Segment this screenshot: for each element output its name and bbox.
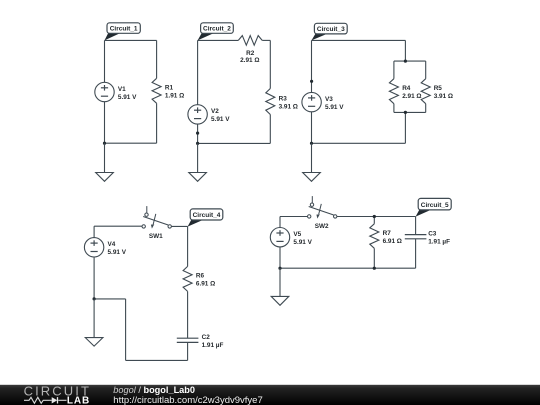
capacitor C2 — [177, 334, 224, 349]
wire C2 to bottom (Circuit_4) — [187, 342, 189, 360]
svg-text:Circuit_5: Circuit_5 — [421, 202, 449, 209]
junction dot bottom bar (Circuit_3) — [404, 111, 407, 114]
junction dot (Circuit_2) — [196, 142, 199, 145]
svg-text:C3: C3 — [428, 231, 437, 238]
wire bottom (Circuit_5) — [280, 267, 416, 269]
svg-text:2.91 Ω: 2.91 Ω — [240, 57, 259, 64]
resistor R6 — [183, 266, 215, 291]
svg-text:1.91 µF: 1.91 µF — [428, 239, 450, 246]
wire bottom (Circuit_4) — [126, 359, 188, 361]
wire stem lower (Circuit_3) — [404, 112, 406, 143]
ground (Circuit_5) — [271, 268, 289, 305]
capacitor C3 — [405, 231, 450, 246]
svg-text:5.91 V: 5.91 V — [118, 94, 137, 101]
svg-text:V1: V1 — [118, 86, 126, 93]
svg-text:V5: V5 — [293, 231, 301, 238]
wire V5 vertical (Circuit_5) — [279, 217, 281, 269]
junction dot bottom left (Circuit_3) — [310, 142, 313, 145]
switch SW1 — [142, 206, 171, 240]
svg-text:R4: R4 — [402, 85, 411, 92]
svg-text:6.91 Ω: 6.91 Ω — [383, 238, 402, 245]
svg-text:C2: C2 — [202, 334, 211, 341]
wire R5 top lead — [425, 61, 427, 79]
ground (Circuit_3) — [303, 143, 321, 181]
svg-text:bogol / bogol_Lab0: bogol / bogol_Lab0 — [113, 385, 195, 395]
wire bottom (Circuit_3) — [312, 142, 406, 144]
wire top right (Circuit_2) — [262, 39, 270, 41]
svg-text:R1: R1 — [165, 85, 174, 92]
wire right lower (Circuit_2) — [269, 115, 271, 144]
svg-text:5.91 V: 5.91 V — [293, 239, 312, 246]
junction dot R7 bottom — [373, 267, 376, 270]
svg-text:SW2: SW2 — [315, 223, 329, 230]
wire riser (Circuit_4) — [125, 299, 127, 361]
junction dot R7 top — [373, 215, 376, 218]
svg-text:5.91 V: 5.91 V — [325, 104, 344, 111]
voltage source V5 — [270, 228, 312, 247]
resistor R1 — [152, 78, 184, 103]
resistor R5 — [421, 79, 453, 104]
resistor R4 — [389, 79, 421, 104]
wire top left (Circuit_5) — [280, 216, 308, 218]
voltage source V1 — [95, 82, 137, 101]
wire R6 to C2 (Circuit_4) — [187, 291, 189, 338]
wire left (Circuit_2) — [197, 40, 199, 143]
wire stem upper (Circuit_3) — [404, 40, 406, 61]
wire switch to C3 node (Circuit_5) — [337, 216, 416, 218]
wire top left (Circuit_2) — [198, 39, 239, 41]
svg-text:Circuit_1: Circuit_1 — [110, 25, 138, 32]
wire R4 top lead — [393, 61, 395, 79]
svg-text:R2: R2 — [246, 50, 255, 57]
svg-text:6.91 Ω: 6.91 Ω — [196, 281, 215, 288]
svg-text:V3: V3 — [325, 96, 333, 103]
wire parallel bottom bar (Circuit_3) — [394, 111, 426, 113]
svg-text:V2: V2 — [211, 108, 219, 115]
wire V4 vertical (Circuit_4) — [93, 226, 95, 299]
node dot above V3 — [310, 80, 313, 83]
wire left (Circuit_3) — [311, 40, 313, 143]
svg-text:Circuit_4: Circuit_4 — [193, 212, 221, 219]
svg-text:R7: R7 — [383, 230, 392, 237]
url line — [113, 395, 262, 405]
wire node to R6 (Circuit_4) — [187, 226, 189, 266]
credit line — [113, 385, 195, 395]
svg-text:R6: R6 — [196, 273, 205, 280]
wire switch to node (Circuit_4) — [171, 225, 187, 227]
svg-text:V4: V4 — [108, 241, 116, 248]
node label Circuit_2 — [198, 23, 234, 41]
wire R5 bottom lead — [425, 104, 427, 113]
junction dot (Circuit_4) — [93, 297, 96, 300]
voltage source V3 — [302, 92, 344, 111]
resistor R3 — [266, 89, 298, 115]
resistor R2 — [238, 36, 262, 64]
wire top (Circuit_3) — [312, 39, 406, 41]
svg-text:R3: R3 — [279, 95, 288, 102]
wire R4 bottom lead — [393, 104, 395, 113]
wire C3 bottom lead — [415, 239, 417, 268]
ground (Circuit_2) — [189, 143, 207, 181]
svg-text:1.91 Ω: 1.91 Ω — [165, 93, 184, 100]
junction dot (Circuit_1) — [103, 142, 106, 145]
voltage source V4 — [84, 238, 126, 257]
footer bar — [0, 385, 540, 405]
node dot (Circuit_2) — [196, 132, 199, 135]
node label Circuit_1 — [105, 23, 141, 41]
ground (Circuit_4) — [85, 299, 103, 346]
wire bottom (Circuit_1) — [105, 142, 157, 144]
svg-text:http://circuitlab.com/c2w3ydv9: http://circuitlab.com/c2w3ydv9vfye7 — [113, 395, 262, 405]
svg-text:3.91 Ω: 3.91 Ω — [279, 103, 298, 110]
wire junction to riser (Circuit_4) — [94, 298, 126, 300]
wire left (Circuit_1) — [104, 40, 106, 143]
svg-text:3.91 Ω: 3.91 Ω — [434, 93, 453, 100]
svg-text:SW1: SW1 — [149, 233, 163, 240]
node label Circuit_4 — [188, 209, 223, 227]
wire top (Circuit_4) — [94, 225, 142, 227]
switch SW2 — [308, 196, 337, 230]
svg-text:Circuit_3: Circuit_3 — [317, 26, 345, 33]
junction dot top bar (Circuit_3) — [404, 60, 407, 63]
svg-text:5.91 V: 5.91 V — [211, 116, 230, 123]
CircuitLab logo — [24, 384, 91, 405]
svg-text:R5: R5 — [434, 85, 443, 92]
svg-text:5.91 V: 5.91 V — [108, 249, 127, 256]
wire bottom (Circuit_2) — [198, 142, 271, 144]
junction dot V5 bottom — [278, 267, 281, 270]
svg-text:Circuit_2: Circuit_2 — [203, 25, 231, 32]
wire right lower (Circuit_1) — [156, 103, 158, 143]
svg-text:LAB: LAB — [67, 395, 90, 405]
svg-text:2.91 Ω: 2.91 Ω — [402, 93, 421, 100]
voltage source V2 — [188, 105, 230, 124]
wire right upper (Circuit_1) — [156, 40, 158, 78]
wire R7 top lead — [373, 217, 375, 224]
wire R7 bottom lead — [373, 248, 375, 268]
wire right upper (Circuit_2) — [269, 40, 271, 88]
node label Circuit_5 — [416, 198, 452, 216]
wire C3 top lead — [415, 217, 417, 235]
wire top (Circuit_1) — [105, 39, 157, 41]
wire parallel top bar (Circuit_3) — [394, 60, 426, 62]
resistor R7 — [370, 224, 402, 249]
node label Circuit_3 — [312, 23, 348, 40]
ground (Circuit_1) — [96, 143, 114, 181]
svg-text:1.91 µF: 1.91 µF — [202, 342, 224, 349]
